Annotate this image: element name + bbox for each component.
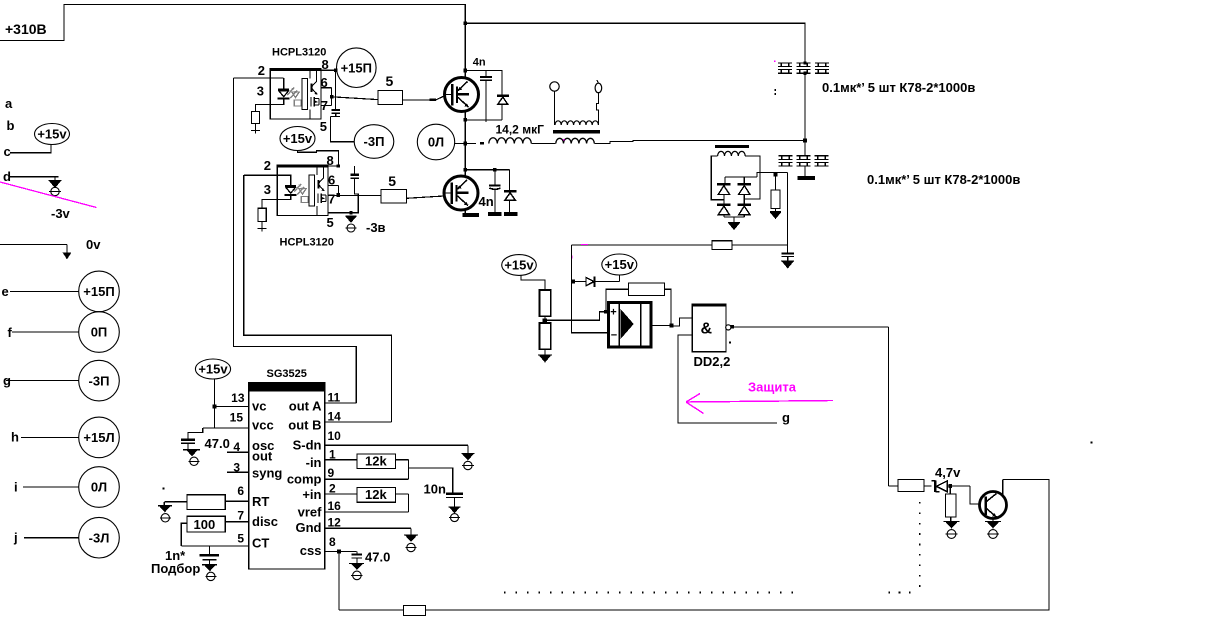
svg-text:47.0: 47.0 [205, 436, 230, 451]
svg-text:e: e [2, 284, 9, 299]
svg-text:Защита: Защита [748, 380, 797, 395]
svg-text:Подбор: Подбор [151, 561, 200, 576]
svg-text:g: g [782, 410, 790, 425]
svg-text:100: 100 [194, 517, 216, 532]
svg-text:HCPL3120: HCPL3120 [272, 47, 326, 59]
svg-text:g: g [3, 373, 11, 388]
svg-text:5: 5 [237, 532, 244, 546]
svg-text:5: 5 [386, 73, 394, 89]
svg-text:css: css [300, 543, 322, 558]
svg-text:+15v: +15v [605, 257, 635, 272]
svg-text:3: 3 [264, 182, 271, 197]
svg-text:vref: vref [298, 505, 323, 520]
svg-text:Gnd: Gnd [296, 520, 322, 535]
svg-text:0v: 0v [86, 237, 101, 252]
svg-text:d: d [3, 169, 11, 184]
svg-text:+: + [610, 307, 616, 319]
svg-text:7: 7 [237, 509, 244, 523]
svg-text:-3П: -3П [364, 134, 385, 149]
svg-text:15: 15 [230, 411, 244, 425]
svg-text:out B: out B [288, 418, 321, 433]
svg-text:out: out [252, 449, 273, 464]
svg-text:13: 13 [231, 391, 245, 405]
svg-text:6: 6 [237, 484, 244, 498]
svg-text:SG3525: SG3525 [267, 368, 307, 380]
svg-text:2: 2 [264, 158, 271, 173]
svg-text:b: b [7, 118, 15, 133]
svg-text:+15v: +15v [504, 258, 534, 273]
svg-text:+15П: +15П [341, 60, 372, 75]
svg-text:+15v: +15v [37, 127, 67, 142]
svg-text:5: 5 [320, 119, 327, 134]
svg-text:a: a [5, 96, 13, 111]
svg-text:47.0: 47.0 [365, 550, 390, 565]
svg-text:10: 10 [328, 429, 342, 443]
svg-text:4,7v: 4,7v [935, 465, 961, 480]
svg-text:j: j [13, 530, 18, 545]
svg-text:vcc: vcc [252, 418, 274, 433]
svg-text:disc: disc [252, 514, 278, 529]
svg-text:5: 5 [327, 215, 334, 230]
svg-text:-3П: -3П [89, 373, 110, 388]
svg-text:2: 2 [258, 63, 265, 78]
svg-text:RT: RT [252, 494, 269, 509]
svg-text:+15П: +15П [83, 284, 114, 299]
svg-text:4n: 4n [479, 194, 494, 209]
svg-text:5: 5 [388, 173, 396, 189]
svg-text:-in: -in [306, 455, 322, 470]
svg-text:−: − [611, 330, 617, 342]
svg-text:comp: comp [287, 472, 322, 487]
svg-text:12k: 12k [365, 454, 387, 469]
svg-text:-3v: -3v [51, 206, 71, 221]
svg-text:4n: 4n [473, 56, 486, 68]
svg-text:0.1мк*’ 5 шт К78-2*1000в: 0.1мк*’ 5 шт К78-2*1000в [867, 172, 1020, 187]
svg-text:+15v: +15v [283, 131, 313, 146]
svg-text:vc: vc [252, 399, 266, 414]
svg-text:+15v: +15v [198, 362, 228, 377]
svg-text:0П: 0П [91, 325, 108, 340]
svg-text:8: 8 [329, 535, 336, 549]
svg-text:syng: syng [252, 466, 282, 481]
svg-text:i: i [14, 480, 18, 495]
svg-text:CT: CT [252, 536, 269, 551]
svg-text:c: c [4, 144, 11, 159]
svg-text:&: & [701, 321, 713, 338]
svg-text:h: h [11, 430, 19, 445]
svg-text:HCPL3120: HCPL3120 [280, 237, 334, 249]
svg-text:-3в: -3в [366, 220, 386, 235]
svg-text:0Л: 0Л [428, 135, 444, 150]
svg-text:16: 16 [328, 499, 342, 513]
svg-text:7: 7 [328, 192, 335, 207]
svg-text:f: f [8, 325, 13, 340]
svg-text:2: 2 [329, 482, 336, 496]
svg-text:-3Л: -3Л [89, 530, 110, 545]
svg-text:+in: +in [302, 487, 321, 502]
svg-text:0.1мк*’ 5 шт К78-2*1000в: 0.1мк*’ 5 шт К78-2*1000в [822, 80, 975, 95]
svg-text:0Л: 0Л [91, 480, 107, 495]
svg-text:+310В: +310В [5, 21, 47, 37]
svg-text:9: 9 [328, 466, 335, 480]
svg-text:3: 3 [257, 84, 264, 99]
svg-text:out A: out A [289, 399, 322, 414]
svg-text:12k: 12k [365, 487, 387, 502]
svg-text:DD2,2: DD2,2 [694, 354, 731, 369]
svg-text:14,2 мкГ: 14,2 мкГ [496, 123, 545, 137]
svg-text:S-dn: S-dn [293, 438, 322, 453]
svg-text:+15Л: +15Л [83, 430, 114, 445]
svg-text:12: 12 [328, 516, 342, 530]
svg-text:10n: 10n [424, 482, 446, 497]
